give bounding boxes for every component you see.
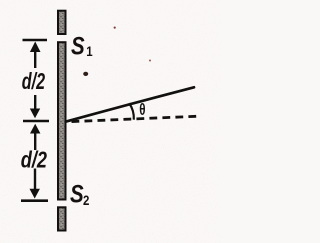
inclined ray from barrier center: [66, 87, 194, 121]
svg-text:θ: θ: [139, 101, 145, 120]
center reference tick: [23, 120, 49, 123]
barrier segment bottom (below slit S2): [58, 207, 66, 230]
svg-text:d/2: d/2: [22, 70, 45, 95]
angle arc: [129, 103, 134, 120]
slit label S2: [70, 180, 89, 209]
horizontal dashed axis: [72, 116, 199, 121]
barrier segment middle (between slits S1 and S2): [58, 42, 66, 199]
ink speck 3: [114, 27, 116, 29]
svg-text:d/2: d/2: [21, 147, 48, 173]
bottom extent tick of lower d/2 dimension: [21, 199, 48, 202]
ink speck 1: [83, 72, 88, 76]
svg-text:1: 1: [86, 43, 92, 59]
top extent tick of upper d/2 dimension: [23, 39, 48, 42]
lower d/2 dimension line with arrowheads: [30, 124, 41, 199]
svg-text:S: S: [71, 32, 85, 60]
ink speck 2: [149, 60, 151, 62]
slit label S1: [71, 32, 93, 60]
barrier segment top (above slit S1): [58, 11, 66, 34]
svg-text:2: 2: [83, 192, 89, 208]
upper d/2 dimension line with arrowheads: [30, 42, 41, 119]
